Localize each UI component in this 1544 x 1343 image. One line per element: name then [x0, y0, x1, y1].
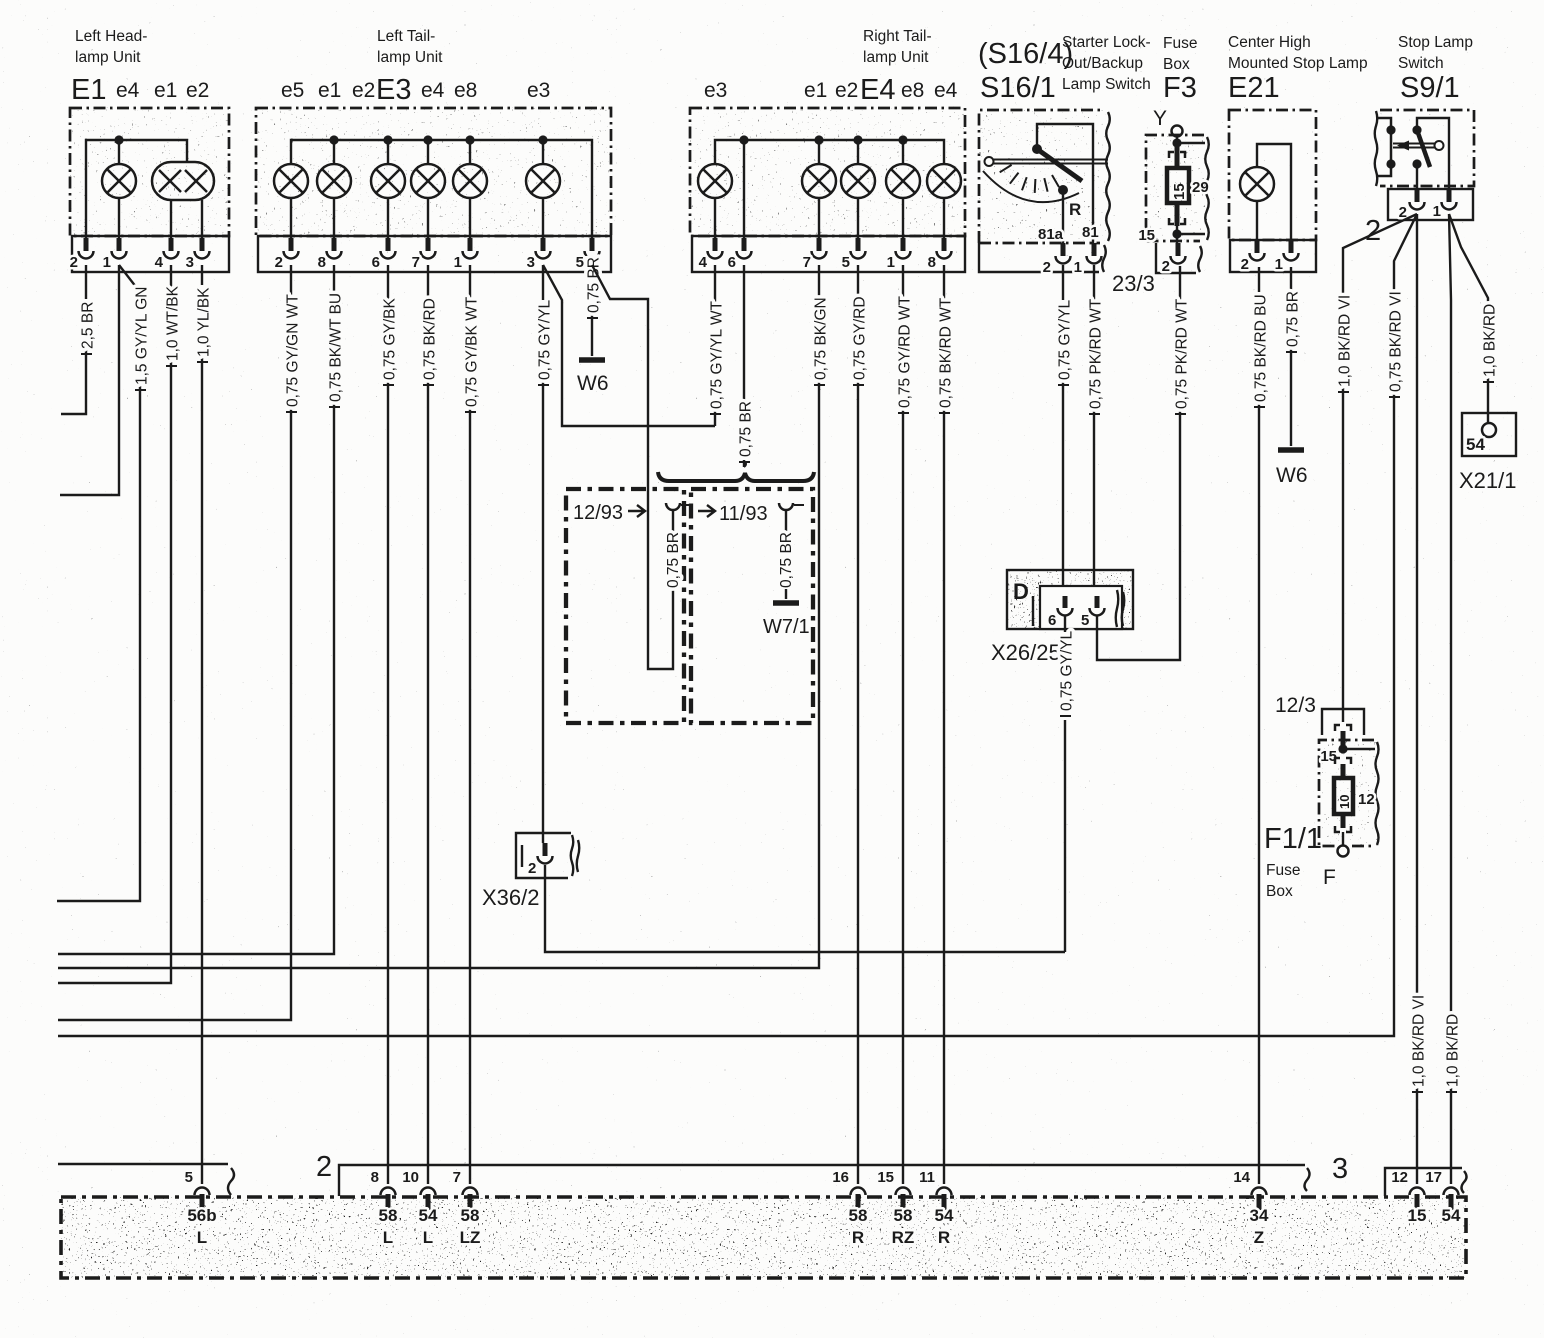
svg-text:7: 7: [453, 1169, 461, 1186]
svg-text:2,5 BR: 2,5 BR: [79, 302, 96, 349]
strip terminal 8 (58 L): [371, 1169, 398, 1247]
svg-text:0,75 GY/RD: 0,75 GY/RD: [851, 296, 868, 380]
svg-text:5: 5: [576, 254, 584, 271]
variant box 12/93: [566, 489, 684, 723]
wire X26/25 pin 5 stub: [1096, 616, 1098, 637]
svg-text:Stop Lamp: Stop Lamp: [1398, 34, 1473, 51]
svg-text:12/93: 12/93: [573, 502, 623, 524]
svg-text:Box: Box: [1266, 883, 1293, 900]
svg-text:E21: E21: [1228, 72, 1280, 104]
Left Head-lamp Unit E1 title: [71, 28, 209, 106]
svg-text:e1: e1: [804, 79, 827, 102]
S16/1 internal contact frame: [1032, 124, 1093, 243]
E4 internal bus wire: [715, 135, 944, 164]
svg-text:R: R: [938, 1228, 950, 1247]
S9/1 switch mechanism: [1376, 118, 1449, 189]
wire 0,75 GY/RD WT from E4 pin 1 to terminal 58RZ: [896, 265, 914, 1184]
E3 pin 6: [372, 238, 396, 271]
wire 0,75 BK/RD BU from E21 pin 2 to terminal 34Z: [1252, 267, 1270, 1184]
wire from E3 pin 3 to E4 pin 4: [543, 265, 715, 426]
lamp E21: [1240, 144, 1291, 240]
svg-text:0,75 BK/WT BU: 0,75 BK/WT BU: [327, 293, 344, 402]
wire 0,75 GY/YL from S16/1 pin 2 to X26/25 pin 6: [1056, 265, 1074, 596]
X36/2 pin 2: [482, 843, 553, 910]
strip terminal 5 (56b L): [185, 1169, 217, 1247]
wire 0,75 BR to ground W7/1: [785, 589, 787, 599]
wire 1,0 BK/RD VI from S9/1 pin 2 to fuse F1/1: [1336, 214, 1417, 722]
svg-text:54: 54: [935, 1206, 954, 1225]
tail lamp unit E3 housing: [256, 108, 611, 272]
wire 0,75 BR from E4 pin 6 to brace: [737, 265, 755, 467]
strip terminal 17 (54 ): [1425, 1169, 1461, 1225]
svg-text:e1: e1: [318, 79, 341, 102]
svg-text:R: R: [1069, 200, 1081, 219]
S9/1 pin 1: [1433, 189, 1457, 220]
svg-text:2: 2: [1162, 258, 1170, 275]
svg-text:Mounted Stop Lamp: Mounted Stop Lamp: [1228, 55, 1368, 72]
wire 0,75 BR from E3 pin 5 to ground W6: [585, 256, 603, 356]
svg-text:34: 34: [1250, 1206, 1269, 1225]
wire 0,75 GY/GN WT from E3 pin 2: [58, 265, 301, 1020]
svg-text:1: 1: [887, 254, 895, 271]
svg-text:R: R: [852, 1228, 864, 1247]
fuse box F3 housing: [1146, 135, 1209, 241]
splice connector in 11/93 box: [778, 503, 804, 588]
svg-text:L: L: [197, 1228, 207, 1247]
F3 connector box: [1156, 243, 1202, 273]
connector X36/2: [516, 833, 579, 878]
lamp E3 at x=428: [411, 140, 445, 238]
svg-text:4: 4: [699, 254, 708, 271]
svg-text:Switch: Switch: [1398, 55, 1444, 72]
svg-text:2: 2: [70, 254, 78, 271]
svg-text:15: 15: [1171, 183, 1188, 200]
scan speckle background (decorative): [70, 108, 229, 236]
svg-text:e1: e1: [154, 79, 177, 102]
E21 pin 1: [1275, 240, 1299, 273]
svg-text:0,75 BR: 0,75 BR: [665, 532, 682, 588]
strip terminal 14 (34 Z): [1233, 1169, 1269, 1247]
svg-text:3: 3: [1332, 1153, 1348, 1185]
svg-text:0,75 BK/RD VI: 0,75 BK/RD VI: [1387, 291, 1404, 392]
svg-text:e4: e4: [116, 79, 140, 102]
svg-text:F: F: [1323, 866, 1336, 889]
svg-text:1: 1: [1433, 203, 1441, 220]
F3 pin 2: [1162, 243, 1186, 275]
E4 pin 8: [928, 238, 952, 271]
svg-text:58: 58: [379, 1206, 398, 1225]
lamp E4 at x=903: [886, 140, 920, 238]
E4 pin 1: [887, 238, 911, 271]
svg-text:Starter Lock-: Starter Lock-: [1062, 34, 1151, 51]
strip terminal 12 (15 ): [1391, 1169, 1426, 1225]
svg-text:Out/Backup: Out/Backup: [1062, 55, 1143, 72]
svg-text:0,75 PK/RD WT: 0,75 PK/RD WT: [1173, 298, 1190, 409]
svg-text:11/93: 11/93: [719, 503, 768, 525]
wire 0,75 BR from E21 pin 1 to ground W6: [1284, 267, 1302, 446]
svg-text:0,75 BR: 0,75 BR: [737, 401, 754, 457]
lamp E4 at x=715: [698, 164, 732, 238]
svg-text:15: 15: [1138, 227, 1155, 244]
svg-text:0,75 BK/RD BU: 0,75 BK/RD BU: [1252, 294, 1269, 402]
headlamp unit E1 housing: [70, 108, 229, 272]
svg-text:F1/1: F1/1: [1264, 823, 1322, 855]
svg-text:12: 12: [1358, 791, 1375, 808]
lamp E4 at x=858: [841, 140, 875, 238]
stop lamp switch S9/1 housing: [1375, 110, 1474, 186]
svg-text:5: 5: [1081, 612, 1089, 629]
svg-text:e2: e2: [186, 79, 209, 102]
svg-text:Box: Box: [1163, 56, 1190, 73]
E4 pin 4: [699, 238, 723, 271]
fuse F3 15A: [1167, 143, 1209, 226]
wire 0,75 BK/RD from E3 pin 7 to terminal 54L: [421, 265, 439, 1184]
svg-text:8: 8: [928, 254, 936, 271]
svg-text:0,75 BK/RD WT: 0,75 BK/RD WT: [937, 297, 954, 408]
E1 pin 3: [186, 238, 210, 271]
svg-text:(S16/4): (S16/4): [978, 38, 1073, 70]
svg-text:1,0 BK/RD: 1,0 BK/RD: [1481, 304, 1498, 377]
svg-text:4: 4: [155, 254, 164, 271]
svg-text:1: 1: [1074, 259, 1082, 276]
wire 0,75 GY/RD from E4 pin 5 to terminal 58R: [851, 265, 869, 1184]
lamp E4 at x=944: [927, 164, 961, 238]
svg-text:1,0 YL/BK: 1,0 YL/BK: [195, 287, 212, 357]
svg-text:e3: e3: [704, 79, 727, 102]
wire 0,75 GY/YL from X26/25 pin 6 down: [1058, 616, 1076, 952]
svg-text:56b: 56b: [187, 1206, 216, 1225]
svg-text:1,0 BK/RD VI: 1,0 BK/RD VI: [1410, 995, 1427, 1087]
strip terminal 15 (58 RZ): [877, 1169, 914, 1247]
S16/1 rotary lever: [985, 149, 1109, 181]
svg-text:2: 2: [528, 860, 536, 877]
wire 0,75 GY/BK WT from E3 pin 1 to terminal 58LZ: [463, 265, 481, 1184]
svg-text:10: 10: [1337, 795, 1352, 809]
svg-text:LZ: LZ: [460, 1228, 481, 1247]
svg-text:L: L: [423, 1228, 433, 1247]
svg-text:lamp Unit: lamp Unit: [377, 49, 443, 66]
svg-text:Center High: Center High: [1228, 34, 1311, 51]
svg-text:1: 1: [103, 254, 111, 271]
svg-text:3: 3: [527, 254, 535, 271]
E1 internal bus wire: [86, 135, 187, 238]
svg-text:7: 7: [412, 254, 420, 271]
lamp E3 at x=334: [317, 140, 351, 238]
F1/1 Fuse Box label: [1264, 823, 1336, 900]
wire 1,0 WT/BK from E1 pin 4: [58, 265, 181, 983]
svg-text:1,0 BK/RD: 1,0 BK/RD: [1444, 1014, 1461, 1087]
svg-text:D: D: [1013, 579, 1029, 604]
Right Tail-lamp Unit E4 title: [704, 28, 958, 106]
connector X26/25 D box: [991, 570, 1133, 665]
E21 pin 2: [1241, 240, 1265, 273]
S9/1 connector box: [1388, 189, 1473, 220]
svg-text:e2: e2: [352, 79, 375, 102]
wire 1,0 YL/BK from E1 pin 3 to terminal 56b: [195, 265, 213, 1184]
svg-text:81: 81: [1082, 224, 1099, 241]
wire 0,75 BK/GN from E4 pin 7: [58, 265, 829, 968]
svg-text:6: 6: [728, 254, 736, 271]
Fuse Box F3 title: [1163, 35, 1197, 104]
E3 internal bus wire: [291, 135, 592, 238]
svg-text:58: 58: [894, 1206, 913, 1225]
svg-text:54: 54: [1442, 1206, 1461, 1225]
svg-text:0,75 BR: 0,75 BR: [585, 257, 602, 313]
wire 0,75 BK/RD WT from E4 pin 8 to terminal 54R: [937, 265, 955, 1184]
S16/1 position fan arc: [983, 165, 1079, 202]
E3 pin 8: [318, 238, 342, 271]
wire 0,75 PK/RD WT from F3 pin 2 to X26/25 pin 5: [1097, 266, 1190, 660]
E3 pin 5: [576, 238, 600, 271]
E1 pin 4: [155, 238, 179, 271]
svg-text:e3: e3: [527, 79, 550, 102]
svg-text:E3: E3: [376, 74, 411, 106]
svg-text:0,75 BK/RD: 0,75 BK/RD: [421, 298, 438, 380]
svg-text:1: 1: [1275, 256, 1283, 273]
wire 1,0 BK/RD VI from S9/1 pin 2 to terminal 15: [1410, 214, 1428, 1184]
svg-text:15: 15: [877, 1169, 894, 1186]
svg-text:0,75 GY/RD WT: 0,75 GY/RD WT: [896, 296, 913, 408]
S16/1 connector box: [979, 243, 1106, 272]
svg-text:0,75 GY/YL: 0,75 GY/YL: [1058, 630, 1075, 711]
strip terminal 16 (58 R): [832, 1169, 867, 1247]
svg-text:e5: e5: [281, 79, 304, 102]
svg-text:16: 16: [832, 1169, 849, 1186]
lamp E3 at x=388: [371, 140, 405, 238]
svg-text:e2: e2: [835, 79, 858, 102]
svg-text:58: 58: [849, 1206, 868, 1225]
ground/terminal strip: [61, 1197, 1466, 1278]
E3 pin 7: [412, 238, 436, 271]
svg-text:1: 1: [454, 254, 462, 271]
wire 1,5 GY/YL GN from E1 pin 1: [57, 265, 150, 901]
svg-text:12/3: 12/3: [1275, 694, 1316, 717]
S9/1 pin 2: [1399, 189, 1425, 221]
svg-text:6: 6: [372, 254, 380, 271]
F3 terminal 15 junction: [1138, 226, 1205, 244]
svg-text:1,0 WT/BK: 1,0 WT/BK: [164, 285, 181, 361]
stop lamp E21 housing: [1229, 110, 1316, 272]
E1 pin 2: [70, 238, 94, 271]
wire 1,0 BK/RD from S9/1 pin 1 to terminal 54: [1444, 214, 1462, 1184]
svg-text:0,75 PK/RD WT: 0,75 PK/RD WT: [1087, 298, 1104, 409]
svg-text:1,5 GY/YL GN: 1,5 GY/YL GN: [133, 287, 150, 386]
svg-text:E1: E1: [71, 74, 106, 106]
X26/25 pin 6: [1048, 596, 1073, 629]
ground W6 right: [1276, 450, 1308, 487]
Center High Mounted Stop Lamp E21 title: [1228, 34, 1368, 104]
wire from E3 pin 5 to splice 12/93: [592, 265, 673, 669]
svg-text:54: 54: [1466, 435, 1485, 454]
S16/1 terminal 81a: [1038, 226, 1071, 276]
svg-text:e4: e4: [934, 79, 958, 102]
switch S16/1 housing: [979, 110, 1110, 243]
svg-text:0,75 GY/YL WT: 0,75 GY/YL WT: [708, 301, 725, 409]
wire 0,75 GY/YL from E3 pin 3 to X36/2: [536, 265, 554, 843]
svg-text:23/3: 23/3: [1112, 271, 1155, 296]
svg-text:0,75 GY/BK WT: 0,75 GY/BK WT: [463, 296, 480, 407]
wire 1,0 BK/RD from S9/1 pin 1 to X21/1: [1449, 214, 1498, 422]
svg-text:X26/25: X26/25: [991, 640, 1061, 665]
svg-text:11: 11: [919, 1169, 935, 1186]
svg-text:5: 5: [842, 254, 850, 271]
svg-text:0,75 BR: 0,75 BR: [1284, 291, 1301, 347]
svg-text:Lamp Switch: Lamp Switch: [1062, 76, 1151, 93]
S16/1 terminal 81: [1074, 224, 1102, 276]
svg-text:12: 12: [1391, 1169, 1408, 1186]
wire 0,75 BK/RD VI from S9/1 pin 2 to left: [58, 214, 1417, 1036]
lamp E1 low beam: [102, 140, 136, 238]
strip terminal 11 (54 R): [919, 1169, 954, 1247]
svg-text:6: 6: [1048, 612, 1056, 629]
svg-text:2: 2: [316, 1151, 332, 1183]
F3 terminal Y: [1153, 107, 1183, 140]
lamp E1 dual filament: [152, 162, 214, 238]
svg-text:17: 17: [1425, 1169, 1442, 1186]
svg-text:Fuse: Fuse: [1163, 35, 1197, 52]
svg-text:e8: e8: [901, 79, 924, 102]
svg-text:lamp Unit: lamp Unit: [75, 49, 141, 66]
group bracket 3: [1332, 1153, 1467, 1196]
svg-text:W7/1: W7/1: [763, 616, 810, 638]
svg-text:E4: E4: [860, 74, 895, 106]
svg-text:L: L: [383, 1228, 393, 1247]
svg-text:2: 2: [275, 254, 283, 271]
svg-text:10: 10: [402, 1169, 419, 1186]
svg-text:RZ: RZ: [892, 1228, 915, 1247]
svg-text:0,75 GY/GN WT: 0,75 GY/GN WT: [284, 294, 301, 407]
fuse 12/3 bracket: [1275, 694, 1364, 735]
wire 0,75 GY/YL WT from E4 pin 4: [708, 265, 726, 426]
Left Tail-lamp Unit E3 title: [281, 28, 550, 106]
svg-text:5: 5: [185, 1169, 193, 1186]
svg-text:Fuse: Fuse: [1266, 862, 1300, 879]
E4 pin 5: [842, 238, 866, 271]
svg-text:Right Tail-: Right Tail-: [863, 28, 932, 45]
lamp E3 at x=543: [526, 140, 560, 238]
brace over variant boxes: [658, 461, 814, 481]
svg-text:58: 58: [461, 1206, 480, 1225]
svg-text:2: 2: [1043, 259, 1051, 276]
svg-text:2: 2: [1241, 256, 1249, 273]
E3 pin 2: [275, 238, 299, 271]
Stop Lamp Switch S9/1 title: [1398, 34, 1473, 104]
wire from E1 pin 1 to left: [60, 265, 119, 495]
wire 0,75 BK/WT BU from E3 pin 8: [58, 265, 344, 954]
ground W7/1: [763, 603, 810, 638]
lamp E4 at x=819: [802, 140, 836, 238]
F3 node 30 junction: [1172, 138, 1205, 147]
group bracket 2: [316, 1151, 1310, 1196]
ground W6 left: [577, 360, 609, 395]
svg-text:Y: Y: [1153, 107, 1167, 130]
svg-text:54: 54: [419, 1206, 438, 1225]
svg-text:e4: e4: [421, 79, 445, 102]
svg-text:14: 14: [1233, 1169, 1250, 1186]
svg-text:0,75 GY/YL: 0,75 GY/YL: [536, 299, 553, 380]
X26/25 pin 5: [1081, 596, 1105, 629]
svg-text:Left Head-: Left Head-: [75, 28, 147, 45]
wire 0,75 GY/BK from E3 pin 6 to terminal 58L: [381, 265, 399, 1184]
tail lamp unit E4 housing: [690, 108, 965, 272]
svg-text:1,0 BK/RD VI: 1,0 BK/RD VI: [1336, 295, 1353, 387]
svg-text:Left Tail-: Left Tail-: [377, 28, 435, 45]
lamp E3 at x=291: [274, 164, 308, 238]
svg-text:F3: F3: [1163, 72, 1197, 104]
S16/1 contact R: [1058, 185, 1081, 243]
E1 pin 1: [103, 238, 127, 271]
E4 pin 6: [728, 238, 752, 271]
svg-text:29: 29: [1192, 179, 1209, 196]
E3 pin 1: [454, 238, 478, 271]
svg-text:0,75 GY/BK: 0,75 GY/BK: [381, 297, 398, 380]
E3 pin 3: [527, 238, 551, 271]
svg-text:3: 3: [186, 254, 194, 271]
svg-text:W6: W6: [1276, 464, 1308, 487]
E4 pin 7: [803, 238, 827, 271]
svg-text:15: 15: [1408, 1206, 1427, 1225]
wire from X36/2 to X26/25 pin 6: [545, 865, 1065, 952]
svg-text:X36/2: X36/2: [482, 885, 540, 910]
svg-text:e8: e8: [454, 79, 477, 102]
strip terminal 7 (58 LZ): [453, 1169, 481, 1247]
svg-text:81a: 81a: [1038, 226, 1064, 243]
svg-text:0,75 GY/YL: 0,75 GY/YL: [1056, 299, 1073, 380]
svg-text:S9/1: S9/1: [1400, 72, 1460, 104]
svg-text:S16/1: S16/1: [980, 72, 1056, 104]
wire 0,75 PK/RD WT from S16/1 pin 1 to X26/25 pin 5: [1087, 265, 1105, 596]
wire 2,5 BR from E1 pin 2: [61, 265, 96, 414]
splice connector in 12/93 box: [665, 503, 691, 588]
svg-text:lamp Unit: lamp Unit: [863, 49, 929, 66]
svg-text:0,75 BR: 0,75 BR: [778, 532, 795, 588]
Starter Lock-Out/Backup Lamp Switch S16/1 title: [978, 34, 1151, 104]
svg-text:Z: Z: [1254, 1228, 1264, 1247]
svg-text:8: 8: [371, 1169, 379, 1186]
connector X21/1: [1459, 413, 1517, 493]
E4 pin 6 feed wire: [743, 140, 745, 238]
svg-text:7: 7: [803, 254, 811, 271]
lamp E3 at x=470: [453, 140, 487, 238]
svg-text:W6: W6: [577, 372, 609, 395]
svg-text:8: 8: [318, 254, 326, 271]
fuse F1/1 10A: [1319, 725, 1379, 857]
svg-text:0,75 BK/GN: 0,75 BK/GN: [812, 297, 829, 380]
strip terminal 10 (54 L): [402, 1169, 438, 1247]
strip left lead-in: [58, 1164, 234, 1195]
svg-text:X21/1: X21/1: [1459, 468, 1517, 493]
variant box 11/93: [691, 489, 813, 723]
